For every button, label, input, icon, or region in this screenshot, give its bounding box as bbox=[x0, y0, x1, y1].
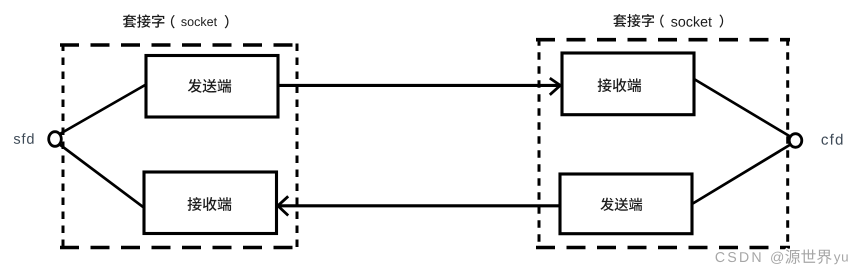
arrow wire: right sender to left receiver bbox=[278, 196, 560, 215]
label: 接收端 (left) bbox=[188, 197, 232, 211]
label: 发送端 (left) bbox=[188, 79, 231, 93]
label: sfd bbox=[14, 133, 34, 144]
node: sfd circle bbox=[49, 132, 62, 147]
wire: sfd node to receiver box (left) bbox=[57, 143, 145, 209]
label: left 套接字（socket） bbox=[123, 14, 165, 27]
box: sender (left top) bbox=[146, 56, 278, 118]
wire: sfd node to sender box (left) bbox=[58, 85, 146, 136]
label: right 套接字（socket） bbox=[613, 14, 654, 27]
label: cfd bbox=[822, 134, 843, 145]
box: receiver (left bottom) bbox=[144, 172, 277, 234]
box: sender (right bottom) bbox=[560, 174, 692, 234]
label: 发送端 (right) bbox=[600, 198, 642, 211]
label: 接收端 (right) bbox=[598, 78, 641, 92]
left socket dashed box bbox=[60, 44, 299, 250]
node: cfd circle bbox=[789, 134, 802, 148]
arrow wire: left sender to right receiver bbox=[278, 78, 560, 95]
box: receiver (right top) bbox=[562, 53, 694, 115]
wire: sender box (right) to cfd node bbox=[692, 145, 791, 205]
wire: receiver box (right) to cfd node bbox=[694, 79, 791, 137]
right socket dashed box bbox=[536, 38, 790, 249]
watermark: CSDN @源世界yu bbox=[716, 249, 848, 264]
